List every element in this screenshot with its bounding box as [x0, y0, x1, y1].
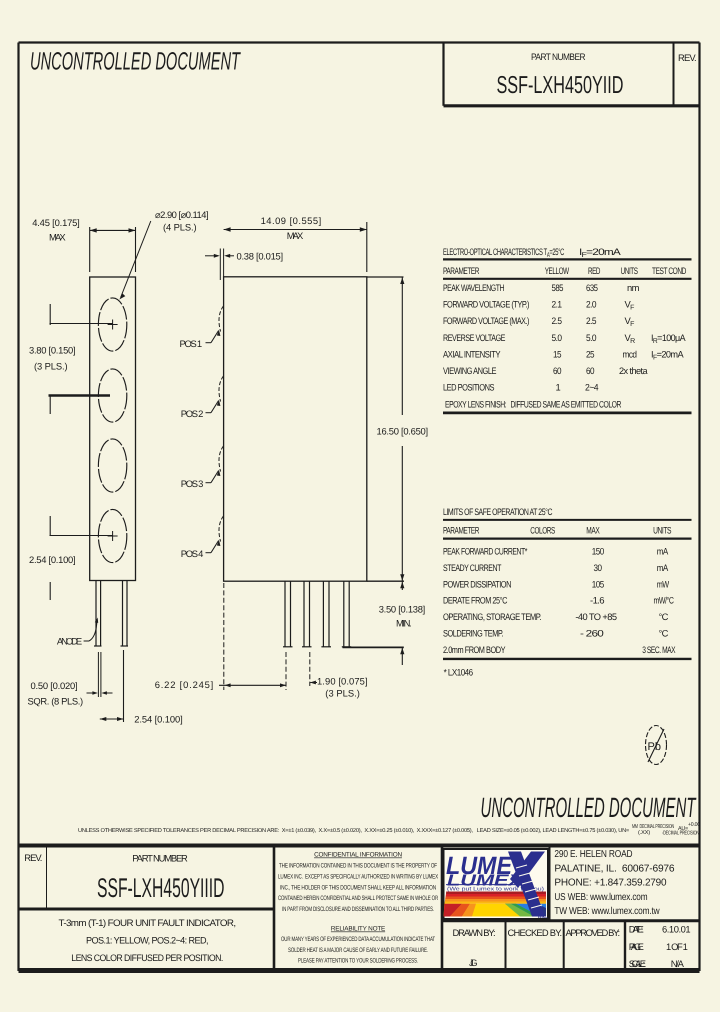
svg-text:5.0: 5.0 [552, 332, 562, 343]
svg-text:SQR. (8 PLS.): SQR. (8 PLS.) [28, 696, 83, 707]
svg-text:* LX1046: * LX1046 [444, 667, 473, 678]
svg-text:2.54 [0.100]: 2.54 [0.100] [29, 554, 75, 565]
svg-text:°C: °C [659, 628, 669, 639]
svg-text:Pb: Pb [648, 741, 661, 753]
svg-text:MAX: MAX [49, 232, 66, 243]
svg-text:LUMEX INC. EXCEPT AS SPECIFIC: LUMEX INC. EXCEPT AS SPECIFICALLY AUTHOR… [278, 873, 439, 880]
svg-text:MAX: MAX [586, 525, 600, 536]
svg-text:PEAK FORWARD CURRENT*: PEAK FORWARD CURRENT* [443, 546, 528, 557]
svg-text:SOLDER HEAT IS A MAJOR CAUSE O: SOLDER HEAT IS A MAJOR CAUSE OF EARLY AN… [288, 947, 428, 954]
svg-text:T-3mm (T-1) FOUR UNIT FAULT IN: T-3mm (T-1) FOUR UNIT FAULT INDICATOR, [59, 917, 236, 928]
svg-text:OUR MANY YEARS OF EXPERIENCED: OUR MANY YEARS OF EXPERIENCED DATA ACCUM… [281, 936, 435, 943]
svg-text:UNLESS OTHERWISE SPECIFIED TOL: UNLESS OTHERWISE SPECIFIED TOLERANCES PE… [78, 827, 629, 834]
svg-text:2.0: 2.0 [586, 299, 596, 310]
svg-text:REV.: REV. [24, 852, 42, 863]
svg-text:Inc.: Inc. [538, 914, 548, 920]
svg-text:-40 TO +85: -40 TO +85 [575, 611, 616, 622]
svg-text:1 OF 1: 1 OF 1 [666, 941, 688, 952]
svg-text:2.54 [0.100]: 2.54 [0.100] [134, 714, 182, 725]
svg-text:STEADY CURRENT: STEADY CURRENT [443, 562, 502, 573]
svg-text:mA: mA [657, 562, 669, 573]
svg-text:LED POSITIONS: LED POSITIONS [443, 382, 494, 393]
svg-text:PLEASE PAY ATTENTION TO YOUR S: PLEASE PAY ATTENTION TO YOUR SOLDERING P… [298, 958, 418, 965]
svg-text:+0.00: +0.00 [688, 822, 700, 828]
svg-text:UNITS: UNITS [621, 265, 638, 276]
svg-text:POS 1: POS 1 [180, 338, 202, 349]
svg-text:15: 15 [553, 348, 561, 359]
svg-text:THE INFORMATION CONTAINED IN T: THE INFORMATION CONTAINED IN THIS DOCUME… [279, 863, 437, 870]
svg-text:FORWARD VOLTAGE (MAX.): FORWARD VOLTAGE (MAX.) [443, 315, 529, 326]
svg-text:-1.6: -1.6 [590, 595, 604, 606]
svg-text:POS 3: POS 3 [181, 478, 203, 489]
svg-text:VIEWING ANGLE: VIEWING ANGLE [443, 365, 496, 376]
svg-text:2.0mm FROM BODY: 2.0mm FROM BODY [443, 644, 506, 655]
svg-text:JG: JG [469, 957, 477, 968]
svg-text:1.90 [0.075]: 1.90 [0.075] [317, 676, 367, 687]
svg-text:LIMITS OF SAFE OPERATION AT 25: LIMITS OF SAFE OPERATION AT 25°C [443, 506, 553, 517]
svg-text:(3 PLS.): (3 PLS.) [34, 361, 67, 372]
svg-text:0.38 [0.015]: 0.38 [0.015] [237, 251, 283, 262]
svg-text:mW/°C: mW/°C [654, 595, 675, 606]
svg-text:RED: RED [588, 265, 601, 276]
svg-text:14.09 [0.555]: 14.09 [0.555] [261, 215, 321, 226]
svg-text:60: 60 [553, 365, 561, 376]
svg-text:SSF-LXH450YIIID: SSF-LXH450YIIID [97, 873, 225, 903]
svg-text:LENS COLOR DIFFUSED PER POSITI: LENS COLOR DIFFUSED PER POSITION. [71, 952, 223, 963]
svg-text:nm: nm [627, 282, 640, 293]
svg-text:POS 2: POS 2 [181, 408, 203, 419]
svg-text:CONFIDENTIAL INFORMATION: CONFIDENTIAL INFORMATION [314, 852, 402, 859]
svg-text:PAGE: PAGE [629, 941, 644, 952]
svg-text:POS 4: POS 4 [181, 548, 203, 559]
svg-text:PARAMETER: PARAMETER [443, 265, 480, 276]
svg-text:30: 30 [594, 562, 602, 573]
svg-text:- 260: - 260 [580, 628, 603, 639]
svg-text:REVERSE VOLTAGE: REVERSE VOLTAGE [443, 332, 505, 343]
svg-text:3.80 [0.150]: 3.80 [0.150] [29, 345, 75, 356]
svg-text:°C: °C [659, 611, 669, 622]
svg-text:0.50 [0.020]: 0.50 [0.020] [31, 680, 78, 691]
svg-text:DRAWN BY:: DRAWN BY: [453, 927, 496, 938]
svg-text:MAX: MAX [287, 230, 304, 241]
svg-text:290 E. HELEN ROAD: 290 E. HELEN ROAD [554, 849, 632, 860]
svg-text:MIN.: MIN. [396, 618, 411, 629]
svg-text:OPERATING, STORAGE TEMP.: OPERATING, STORAGE TEMP. [443, 611, 541, 622]
svg-text:635: 635 [586, 282, 598, 293]
svg-text:16.50 [0.650]: 16.50 [0.650] [377, 426, 428, 437]
svg-text:150: 150 [592, 546, 604, 557]
svg-text:POWER DISSIPATION: POWER DISSIPATION [443, 578, 511, 589]
svg-text:2.5: 2.5 [586, 315, 596, 326]
svg-text:25: 25 [586, 348, 594, 359]
svg-text:US WEB: www.lumex.com: US WEB: www.lumex.com [554, 892, 647, 903]
svg-text:CONTAINED HEREIN CONFIDENTIAL: CONTAINED HEREIN CONFIDENTIAL AND SHALL … [278, 895, 438, 902]
svg-text:PART NUMBER: PART NUMBER [531, 51, 586, 62]
svg-text:PEAK WAVELENGTH: PEAK WAVELENGTH [443, 282, 504, 293]
svg-text:PARAMETER: PARAMETER [443, 525, 480, 536]
svg-text:mcd: mcd [623, 348, 637, 359]
svg-text:3.50 [0.138]: 3.50 [0.138] [379, 604, 425, 615]
svg-text:N/A: N/A [671, 958, 685, 969]
svg-text:2.5: 2.5 [552, 315, 562, 326]
svg-text:⌀2.90 [⌀0.114]: ⌀2.90 [⌀0.114] [155, 209, 208, 220]
svg-text:DATE:: DATE: [629, 924, 644, 935]
svg-text:(.XX): (.XX) [638, 829, 650, 836]
svg-text:2.1: 2.1 [552, 299, 562, 310]
svg-text:-DECIMAL PRECISION: -DECIMAL PRECISION [662, 831, 699, 837]
svg-text:INC., THE HOLDER OF THIS DOCUM: INC., THE HOLDER OF THIS DOCUMENT SHALL … [280, 884, 436, 891]
svg-text:FORWARD VOLTAGE (TYP.): FORWARD VOLTAGE (TYP.) [443, 299, 529, 310]
svg-text:DERATE FROM 25°C: DERATE FROM 25°C [443, 595, 508, 606]
svg-text:6.10.01: 6.10.01 [662, 924, 690, 935]
svg-text:YELLOW: YELLOW [545, 265, 570, 276]
svg-text:RELIABILITY NOTE: RELIABILITY NOTE [331, 926, 385, 933]
svg-text:TW WEB: www.lumex.com.tw: TW WEB: www.lumex.com.tw [554, 906, 660, 917]
svg-text:TEST COND: TEST COND [652, 265, 687, 276]
svg-text:APPROVED BY:: APPROVED BY: [566, 927, 621, 938]
svg-text:1: 1 [556, 382, 561, 393]
svg-text:UNITS: UNITS [653, 525, 671, 536]
svg-text:UNCONTROLLED DOCUMENT: UNCONTROLLED DOCUMENT [30, 48, 241, 76]
svg-text:6.22 [0.245]: 6.22 [0.245] [155, 679, 213, 690]
svg-text:SSF-LXH450YIID: SSF-LXH450YIID [497, 72, 624, 99]
svg-text:2x theta: 2x theta [619, 365, 648, 376]
svg-text:IN PART FROM DISCLOSURE AND DI: IN PART FROM DISCLOSURE AND DISSEMINATIO… [282, 906, 434, 913]
svg-text:PHONE: +1.847.359.2790: PHONE: +1.847.359.2790 [554, 878, 667, 889]
svg-text:PALATINE, IL. 60067-6976: PALATINE, IL. 60067-6976 [554, 863, 675, 874]
svg-text:ANODE: ANODE [57, 636, 82, 647]
svg-text:EPOXY LENS FINISH: DIFFUSED: EPOXY LENS FINISH: DIFFUSED SAME AS EMIT… [445, 398, 622, 409]
svg-text:105: 105 [592, 578, 604, 589]
svg-text:2~4: 2~4 [585, 382, 598, 393]
svg-text:POS.1: YELLOW, POS.2~4: RED,: POS.1: YELLOW, POS.2~4: RED, [86, 935, 208, 946]
svg-text:60: 60 [586, 365, 594, 376]
svg-text:REV.: REV. [678, 52, 696, 63]
svg-text:UNCONTROLLED DOCUMENT: UNCONTROLLED DOCUMENT [481, 792, 697, 823]
svg-text:mW: mW [657, 578, 670, 589]
svg-text:COLORS: COLORS [530, 525, 555, 536]
svg-text:4.45 [0.175]: 4.45 [0.175] [32, 217, 79, 228]
svg-text:SCALE:: SCALE: [629, 958, 646, 969]
svg-text:5.0: 5.0 [586, 332, 596, 343]
svg-text:3 SEC. MAX: 3 SEC. MAX [642, 644, 676, 655]
svg-text:mA: mA [657, 546, 669, 557]
svg-text:585: 585 [552, 282, 564, 293]
svg-text:PART NUMBER: PART NUMBER [132, 853, 188, 864]
svg-text:SOLDERING TEMP.: SOLDERING TEMP. [443, 628, 503, 639]
svg-text:AXIAL INTENSITY: AXIAL INTENSITY [443, 348, 501, 359]
svg-text:(3 PLS.): (3 PLS.) [325, 688, 359, 699]
svg-text:(4 PLS.): (4 PLS.) [163, 222, 196, 233]
svg-text:CHECKED BY.: CHECKED BY. [508, 927, 563, 938]
